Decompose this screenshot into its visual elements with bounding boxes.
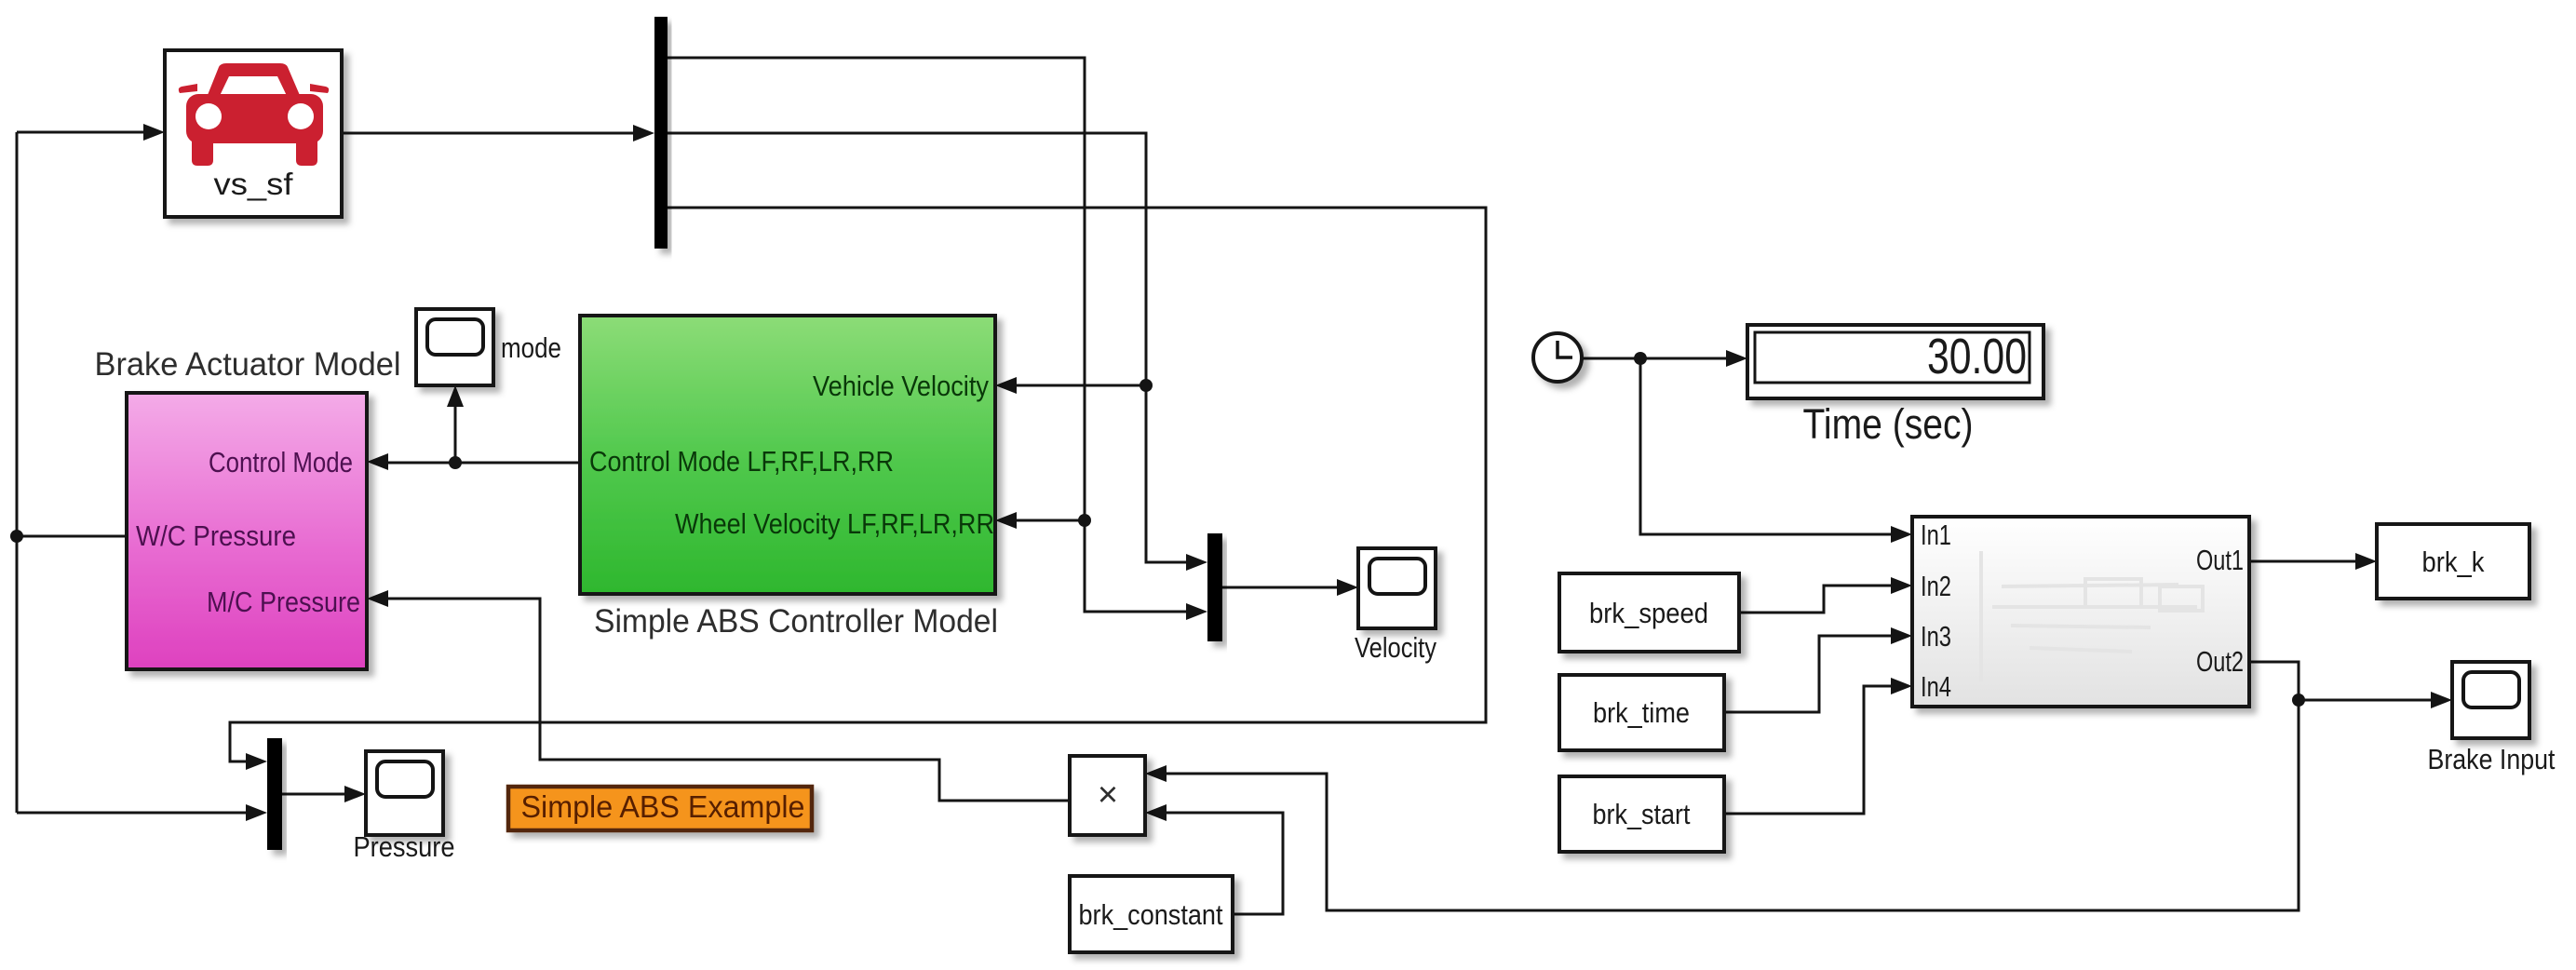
block brk_speed (constant) (1559, 573, 1739, 652)
svg-text:Control Mode LF,RF,LR,RR: Control Mode LF,RF,LR,RR (589, 445, 894, 478)
svg-text:30.00: 30.00 (1927, 329, 2027, 384)
node: junction demux2-vehicle (1140, 379, 1153, 392)
svg-text:Brake Input: Brake Input (2428, 743, 2556, 775)
svg-text:In4: In4 (1921, 670, 1951, 703)
svg-text:Control Mode: Control Mode (209, 446, 353, 478)
wire: left feedback vertical (W/C pressure to vs_sf and pressure mux) (16, 132, 19, 813)
block Brake Actuator Model (pink subsystem) (95, 346, 401, 669)
wire: product output to M/C pressure (381, 599, 1070, 801)
svg-text:vs_sf: vs_sf (214, 167, 294, 201)
block product P1 (flipped) (1070, 756, 1145, 835)
svg-text:×: × (1098, 775, 1118, 815)
svg-text:brk_start: brk_start (1593, 798, 1691, 830)
block display Time (1747, 325, 2043, 448)
block brk_time (constant) (1559, 675, 1724, 750)
block brk_k (To Workspace) (2377, 524, 2529, 599)
node: junction demux1-wheel (1078, 514, 1091, 527)
svg-text:brk_k: brk_k (2422, 546, 2485, 578)
mux M2 (pressure) (267, 738, 282, 850)
svg-text:W/C Pressure: W/C Pressure (136, 519, 296, 552)
wire: clock branch to In1 (1640, 358, 1898, 534)
demux D1 (top) (654, 17, 668, 249)
wire: into vs_sf (17, 131, 149, 134)
wire: vs_sf to demux (342, 132, 641, 135)
block scope Velocity (1355, 548, 1436, 664)
block scope mode (416, 309, 561, 385)
svg-text:Out2: Out2 (2196, 645, 2244, 678)
svg-text:Simple ABS Controller Model: Simple ABS Controller Model (594, 603, 998, 640)
wire: Out1 to brk_k (2249, 560, 2363, 563)
wire: clock to display (1583, 357, 1733, 360)
wire: velocity mux out to Velocity scope (1222, 586, 1344, 589)
mux M1 (velocity) (1207, 533, 1222, 641)
wire: brk_time to In3 (1724, 636, 1898, 712)
svg-text:Brake Actuator Model: Brake Actuator Model (95, 346, 401, 383)
node: junction Out2 (2292, 694, 2305, 707)
svg-text:In2: In2 (1921, 570, 1951, 602)
icon: red car (179, 63, 329, 166)
svg-text:brk_constant: brk_constant (1079, 898, 1223, 931)
wire: demux out1 to wheel velocity + velocity mux in2 (668, 58, 1194, 612)
wire: left vertical into pressure mux in2 (17, 812, 253, 815)
svg-text:brk_time: brk_time (1593, 696, 1690, 729)
svg-text:M/C Pressure: M/C Pressure (207, 586, 360, 618)
wire: demux out2 to vehicle velocity + velocity mux in1 (668, 133, 1194, 562)
svg-text:Velocity: Velocity (1355, 631, 1436, 664)
block clock (1533, 333, 1582, 382)
svg-text:Out1: Out1 (2196, 544, 2244, 576)
block vs_sf (vehicle S-function) (165, 50, 342, 217)
wire: brk_speed to In2 (1739, 586, 1898, 613)
node: junction W/C (10, 530, 23, 543)
svg-text:brk_speed: brk_speed (1589, 597, 1708, 629)
svg-text:In3: In3 (1921, 620, 1951, 653)
wire: control mode green to pink (381, 462, 580, 465)
wire: demux out3 long loop to pressure mux in1 (230, 208, 1486, 761)
block subsystem U1 (brake profile) (1912, 517, 2249, 707)
wire: Out2 branch to Brake Input scope (2299, 699, 2438, 702)
wire: W/C pressure from brake actuator to left vertical (17, 535, 126, 538)
wire: branch up to mode scope (454, 399, 457, 463)
block scope Pressure (354, 751, 455, 863)
svg-text:Vehicle Velocity: Vehicle Velocity (813, 370, 989, 402)
svg-text:In1: In1 (1921, 519, 1951, 551)
block Simple ABS Controller Model (green subsystem) (580, 316, 998, 640)
svg-text:Pressure: Pressure (354, 830, 455, 863)
wire: pressure mux out to Pressure scope (282, 793, 352, 796)
wire: Out2 down and to product in1 (1159, 662, 2299, 910)
node: junction clock (1634, 352, 1647, 365)
wire: brk_constant to product in2 (1159, 813, 1283, 914)
annotation Simple ABS Example (508, 787, 812, 830)
block scope Brake Input (2428, 662, 2556, 775)
svg-text:Wheel Velocity LF,RF,LR,RR: Wheel Velocity LF,RF,LR,RR (675, 507, 994, 540)
svg-text:Simple ABS Example: Simple ABS Example (521, 789, 805, 824)
svg-text:Time (sec): Time (sec) (1803, 400, 1974, 448)
node: junction control mode (449, 456, 462, 469)
faint ghost diagram inside subsystem (1981, 551, 2203, 681)
wire: brk_start to In4 (1724, 686, 1898, 814)
block brk_start (constant) (1559, 776, 1724, 852)
block brk_constant (constant) (1070, 876, 1233, 952)
svg-text:mode: mode (501, 331, 561, 364)
